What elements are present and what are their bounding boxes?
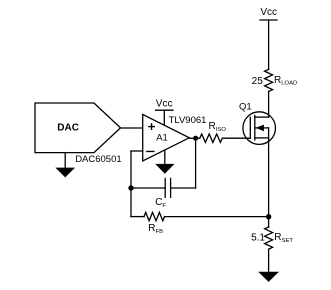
power Vcc (top right) [260, 7, 277, 20]
svg-text:Q1: Q1 [239, 101, 252, 112]
wire C_F right lead [171, 187, 196, 189]
ground (DAC) [55, 168, 75, 178]
wire DAC to op-amp noninverting input [121, 127, 143, 129]
ground (op-amp) [155, 164, 174, 174]
resistor R_ISO [200, 134, 223, 142]
svg-text:Vcc: Vcc [260, 7, 277, 18]
wire DAC ground stub [64, 153, 66, 168]
ground (below R_SET) [258, 272, 279, 282]
svg-text:TLV9061: TLV9061 [169, 115, 207, 126]
wire R_LOAD to Q1 drain [268, 91, 270, 117]
resistor R_FB [144, 212, 165, 220]
wire output node down to C_F [195, 138, 197, 188]
resistor R_LOAD [265, 69, 273, 91]
transistor Q1 [243, 112, 276, 145]
wire inverting input rail [131, 151, 144, 217]
wire Q1 source to set node [268, 128, 270, 227]
svg-text:DAC: DAC [57, 123, 79, 134]
node output junction [193, 136, 198, 141]
wire op-amp output to R_ISO [189, 137, 200, 139]
svg-text:25: 25 [252, 76, 264, 87]
svg-text:5.1: 5.1 [251, 233, 265, 244]
wire C_F left lead [131, 187, 165, 189]
power Vcc (op-amp) [156, 99, 174, 125]
resistor R_SET [265, 227, 273, 249]
wire R_ISO to Q1 gate [222, 137, 250, 139]
wire Vcc to R_LOAD [268, 20, 270, 69]
svg-text:A1: A1 [156, 132, 168, 143]
svg-text:DAC60501: DAC60501 [75, 154, 121, 165]
wire R_FB to set node [165, 216, 269, 218]
wire R_SET to ground [268, 249, 270, 272]
wire op-amp ground stub [164, 150, 166, 164]
svg-text:Vcc: Vcc [156, 99, 173, 110]
node feedback junction [128, 185, 133, 190]
node set junction [266, 214, 271, 219]
capacitor C_F [165, 178, 170, 197]
op-amp A1 [143, 114, 190, 160]
DAC block DAC60501 [35, 103, 121, 153]
